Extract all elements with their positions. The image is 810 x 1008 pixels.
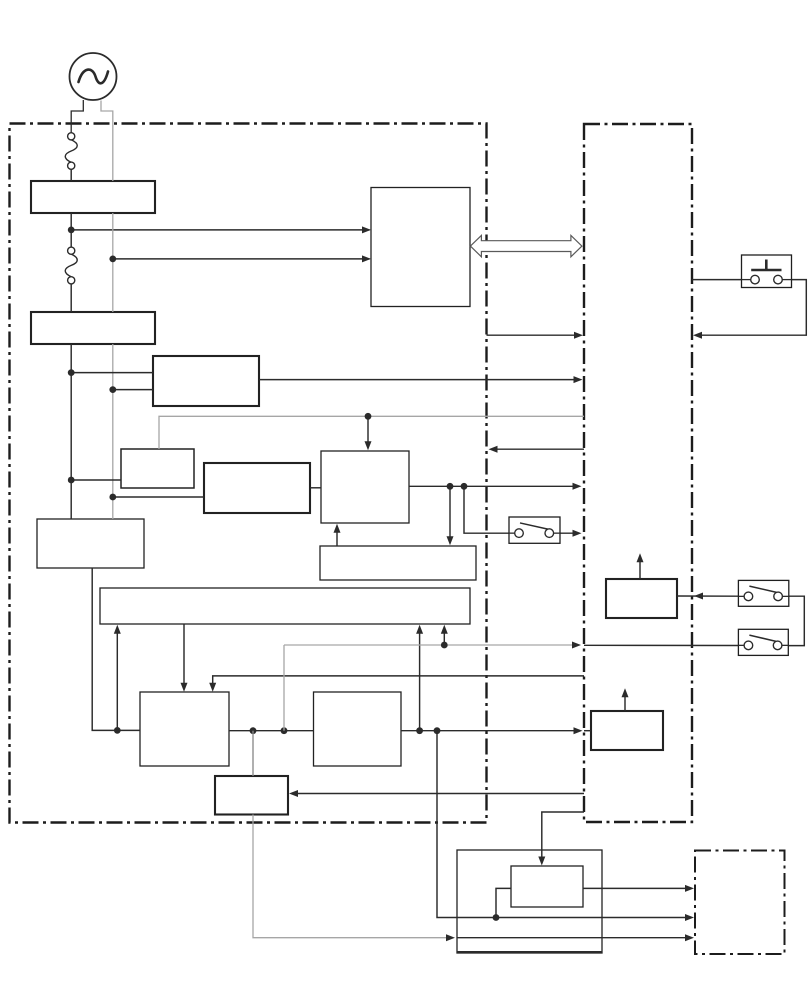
wire junction down to B8 <box>449 486 451 542</box>
junction bus 1 <box>250 727 257 734</box>
wire B8 to B7 feedback <box>336 527 338 546</box>
wire live B2 down to B10 <box>70 344 72 519</box>
block B10 power supply <box>37 519 144 568</box>
arrow B7 output <box>573 483 582 490</box>
wire junction to switch SW1 <box>464 486 509 533</box>
wire neutral B2 down to B10 gray <box>112 344 114 519</box>
wire live tap to B3 <box>71 372 153 374</box>
switch SW3 door switch 2 <box>738 629 788 655</box>
block B12 output circuit <box>314 692 402 766</box>
wire B17 output <box>583 887 690 889</box>
wire gray feedback y645 <box>284 644 577 646</box>
arrow gray into B16 <box>446 934 455 941</box>
arrow into B11 top 2 <box>209 683 216 692</box>
junction neutral tap 1 <box>109 256 116 263</box>
arrow into B14 from SW2 <box>694 593 703 600</box>
block B3 rectifier <box>153 356 259 406</box>
fuse F1 <box>65 133 77 170</box>
wire B6 to B7 <box>310 487 321 489</box>
switch SW1 interlock <box>509 517 560 543</box>
wire bus junction to B13 top <box>252 731 254 776</box>
arrow y335 <box>574 332 583 339</box>
junction live tap 2 <box>68 369 75 376</box>
arrow y449 left <box>489 446 498 453</box>
wire junction up to B9 <box>116 628 118 730</box>
wire live tap to B5 <box>71 479 121 481</box>
junction neutral tap 3 <box>109 494 116 501</box>
junction bus 4 <box>434 727 441 734</box>
wire junction up to B17 left <box>496 888 511 917</box>
wire B9 down to B11 <box>183 624 185 688</box>
wire neutral B1 to B2 gray <box>112 213 114 312</box>
wire bus down to bottom assembly <box>437 731 690 918</box>
wire B5 top gray net <box>159 416 584 449</box>
block B16 bottom assembly <box>457 850 602 953</box>
wire SW2 to B14 <box>677 595 738 597</box>
arrow y645 into control board <box>572 642 581 649</box>
AC source left lead wire <box>71 100 83 133</box>
AC source sine wave <box>79 70 109 84</box>
dash-dot enclosure: bottom-right unit outline <box>695 851 785 955</box>
wire live tap to B4 <box>71 229 369 231</box>
wire push button return loop <box>697 280 807 336</box>
arrow y917 into bottom-right unit <box>685 914 694 921</box>
wire bus junction up gray <box>283 645 285 731</box>
bidirectional bus arrow between B4 and control board <box>470 235 582 256</box>
wire neutral tap to B6 <box>113 496 204 498</box>
wire SW2 to SW3 link <box>788 596 804 645</box>
wire control board back to main y449 <box>492 448 584 450</box>
arrow into B11 top <box>181 683 188 692</box>
wire B7 output <box>409 485 578 487</box>
block B7 main control <box>321 451 409 523</box>
block B6 converter <box>204 463 310 513</box>
arrow into B7 bottom <box>334 524 341 533</box>
junction inside B16 <box>493 914 500 921</box>
wire control board to push button <box>692 279 742 281</box>
junction neutral tap 2 <box>109 386 116 393</box>
wire output bus into B15 <box>584 730 591 732</box>
wire B10 bottom to B11 <box>92 568 140 730</box>
block B9 bus bar <box>100 588 470 624</box>
wire B16 through y938 <box>457 937 690 939</box>
arrow into B9 bottom right <box>441 625 448 634</box>
arrow B14 up <box>637 553 644 562</box>
wire y645 up to B9 <box>443 628 445 645</box>
wire neutral tap to B4 <box>113 258 370 260</box>
wire control line y676 to B11 <box>213 676 584 688</box>
arrow B17 output into bottom-right unit <box>685 885 694 892</box>
block B2 line filter 2 <box>31 312 155 344</box>
wire gray net down to B7 <box>367 416 369 447</box>
block B5 sub regulator <box>121 449 194 488</box>
wire B1 to fuse F2 with tap <box>70 213 72 247</box>
block B4 interface board <box>371 188 470 307</box>
block B17 inner module <box>511 866 583 907</box>
AC source circle <box>70 53 117 100</box>
arrow into B17 top <box>538 857 545 866</box>
junction live tap 3 <box>68 477 75 484</box>
block B1 line filter 1 <box>31 181 155 213</box>
arrow into B9 bottom left <box>114 625 121 634</box>
dash-dot enclosure: main unit outline <box>10 124 487 823</box>
wire B15 indicator up <box>624 692 626 711</box>
arrow SW1 output <box>573 530 582 537</box>
arrow output bus <box>574 727 583 734</box>
wire B13 bottom gray to bottom assembly <box>253 815 451 938</box>
wire B11 to B12 output bus <box>229 730 314 732</box>
block B15 relay driver 2 <box>591 711 663 750</box>
arrow into B4 upper <box>362 226 371 233</box>
wire control board to B13 <box>293 793 584 795</box>
junction B7 out 2 <box>461 483 468 490</box>
block B13 sensor circuit <box>215 776 288 815</box>
wire y645 control board to SW3 <box>584 644 738 646</box>
wire bus up to B9 mid <box>419 628 421 731</box>
arrow return into control board <box>693 332 702 339</box>
arrow into B9 bottom mid <box>416 625 423 634</box>
arrow into B4 lower <box>362 255 371 262</box>
arrow into B8 top <box>447 536 454 545</box>
wire fuse F1 to B1 <box>70 169 72 181</box>
junction y645 <box>441 642 448 649</box>
arrow y938 into bottom-right unit <box>685 934 694 941</box>
dash-dot enclosure: control board outline <box>584 124 692 822</box>
wire B12 to B15 output bus <box>401 730 579 732</box>
wire main outline to control board y335 <box>487 334 580 336</box>
junction bus 2 <box>281 727 288 734</box>
wire B14 indicator up <box>639 557 641 579</box>
block B11 regulator <box>140 692 229 766</box>
junction B7 out 1 <box>447 483 454 490</box>
AC source right lead wire <box>101 101 113 182</box>
arrow B3 output <box>574 376 583 383</box>
switch SW2 door switch <box>738 580 788 606</box>
arrow B15 up <box>622 688 629 697</box>
arrow into B7 top <box>365 441 372 450</box>
push button switch SW4 <box>742 255 792 288</box>
junction B10 line <box>114 727 121 734</box>
wire neutral tap to B3 <box>113 389 153 391</box>
block B14 relay driver <box>606 579 677 618</box>
wire SW1 to control board <box>560 532 578 534</box>
junction bus 3 <box>416 727 423 734</box>
wire fuse F2 to B2 <box>70 284 72 312</box>
block B16 bottom edge <box>457 951 602 953</box>
junction gray net <box>365 413 372 420</box>
wire control board down to B17 <box>542 812 584 862</box>
junction live tap 1 <box>68 227 75 234</box>
wire B3 output to control board <box>259 379 579 381</box>
fuse F2 <box>65 247 77 284</box>
block B8 driver <box>320 546 476 580</box>
arrow into B13 right <box>289 790 298 797</box>
